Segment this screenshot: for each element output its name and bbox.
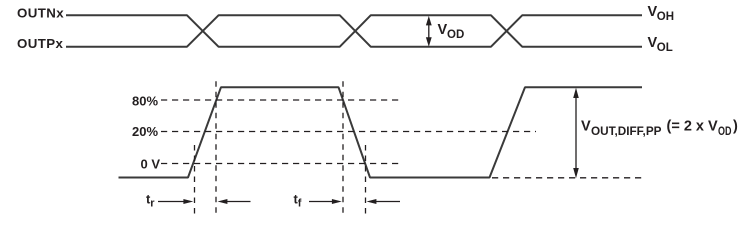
dashed baseline extension (low level, right) — [492, 177, 645, 179]
svg-text:V: V — [581, 119, 591, 135]
dashed level line 20% — [161, 131, 536, 133]
svg-text:20%: 20% — [132, 124, 158, 139]
svg-text:OH: OH — [657, 11, 674, 23]
dashed level line 0 V — [161, 163, 399, 165]
svg-text:OL: OL — [657, 42, 673, 54]
svg-text:OUTNx: OUTNx — [17, 6, 64, 21]
dashed vertical guide at fall 80% crossing — [342, 80, 344, 215]
label tf — [294, 192, 302, 210]
label VOUT,DIFF,PP (= 2 x VOD) — [581, 119, 738, 138]
svg-text:0 V: 0 V — [141, 157, 161, 172]
wire OUTNx differential waveform (starts high) — [66, 15, 642, 46]
wire OUTPx differential waveform (starts low) — [66, 15, 642, 46]
svg-text:OD: OD — [718, 126, 732, 138]
arrow tr left (points right) — [158, 199, 193, 204]
svg-text:OD: OD — [447, 29, 464, 41]
dashed level line 80% — [161, 99, 399, 101]
svg-text:(= 2 x V: (= 2 x V — [667, 119, 719, 135]
label OUTPx — [17, 36, 64, 51]
arrow VOD (double-headed vertical between OUTNx and OUTPx) — [426, 16, 432, 47]
dashed vertical guide at rise 80% crossing — [215, 80, 217, 215]
svg-text:80%: 80% — [132, 94, 158, 109]
label OUTNx — [17, 6, 64, 21]
svg-text:OUTPx: OUTPx — [17, 36, 64, 51]
svg-text:V: V — [438, 22, 448, 38]
svg-text:OUT,DIFF,PP: OUT,DIFF,PP — [591, 126, 662, 138]
label VOL — [648, 35, 673, 54]
arrow VOUT,DIFF,PP (double-headed vertical) — [573, 88, 579, 178]
label VOD — [438, 22, 465, 41]
dashed vertical guide at rise 0V crossing — [194, 145, 196, 215]
label VOH — [648, 4, 675, 23]
svg-text:): ) — [733, 119, 738, 135]
arrow tr right (points left) — [218, 199, 251, 204]
dashed vertical guide at fall 0V crossing — [365, 145, 367, 215]
arrow tf right (points left) — [367, 199, 401, 204]
label 80% — [132, 94, 158, 109]
label 0 V — [141, 157, 161, 172]
svg-text:f: f — [298, 198, 302, 210]
svg-text:r: r — [150, 198, 155, 210]
arrow tf left (points right) — [309, 199, 342, 204]
label 20% — [132, 124, 158, 139]
label tr — [146, 192, 155, 210]
wire single-ended output waveform — [119, 87, 643, 177]
